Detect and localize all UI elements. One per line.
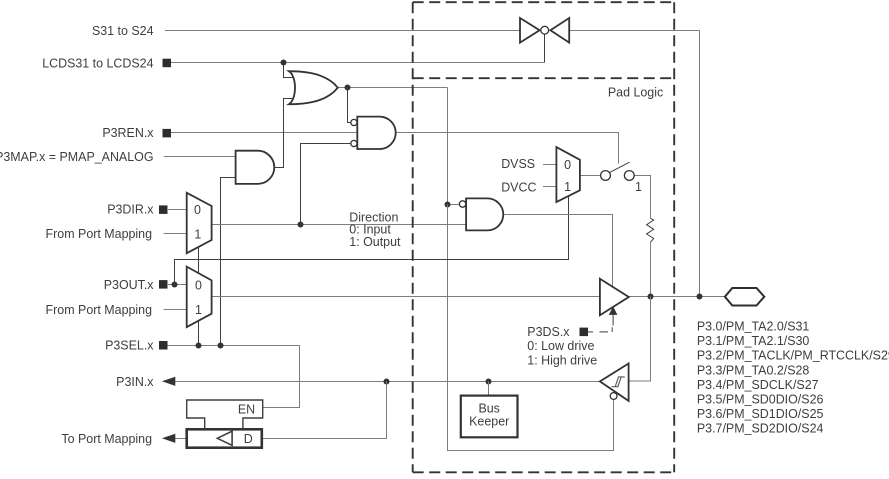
square P3OUT (159, 280, 168, 289)
wire direction to NAND bubble 2 (301, 144, 351, 225)
square P3DIR (159, 205, 168, 214)
dashed divider pad logic (413, 77, 675, 79)
square P3REN (163, 129, 172, 138)
wire P3OUT to pull mux select (175, 196, 569, 284)
switch arm (610, 162, 630, 172)
svg-text:P3DS.x: P3DS.x (527, 325, 570, 339)
wire S31 right segment (569, 30, 699, 32)
svg-text:1: 1 (195, 303, 202, 317)
svg-text:1: 1 (194, 228, 201, 242)
wire AND U3 output to buffer enable (503, 215, 612, 287)
svg-text:To Port Mapping: To Port Mapping (61, 432, 152, 446)
wire LCDS to transmission-gate control (544, 34, 546, 63)
wire bus keeper stub (488, 382, 490, 396)
drive strength arrow (609, 306, 618, 315)
P3DS dashed wire (587, 331, 593, 333)
svg-text:P3MAP.x = PMAP_ANALOG: P3MAP.x = PMAP_ANALOG (0, 150, 154, 164)
wire S31 riser to pad (699, 31, 701, 297)
node P3SEL junction 2 (218, 343, 224, 349)
svg-text:1: 1 (564, 180, 571, 194)
svg-text:1: 1 (635, 180, 642, 194)
svg-text:P3IN.x: P3IN.x (116, 375, 154, 389)
wire From Port Mapping 1 (164, 233, 187, 235)
node direction junction (298, 222, 304, 228)
wire direction line (212, 224, 467, 226)
wire switch to resistor (634, 176, 650, 219)
svg-text:From Port Mapping: From Port Mapping (46, 227, 153, 241)
bubble U3 input1 (459, 201, 465, 207)
wire P3OUT square to mux (168, 284, 187, 286)
svg-text:0: Low drive: 0: Low drive (527, 339, 594, 353)
transmission gate left triangle (520, 18, 540, 43)
mux M2 P3OUT (187, 267, 212, 328)
svg-text:0: 0 (195, 279, 202, 293)
svg-text:P3.0/PM_TA2.0/S31: P3.0/PM_TA2.0/S31 (697, 320, 810, 334)
P3DS square (580, 328, 589, 337)
node LCDS junction (281, 60, 287, 66)
and gate U3 (direction) (466, 198, 503, 230)
wire AND A2 output to OR input 2 (274, 99, 294, 168)
register EN box (187, 400, 263, 429)
svg-text:Keeper: Keeper (469, 415, 509, 429)
wire S31 left segment (165, 30, 520, 32)
wire DVSS stub (543, 164, 556, 166)
wire To Port Mapping (173, 438, 187, 440)
svg-text:1: High drive: 1: High drive (527, 354, 597, 368)
bubble U4 input1 (351, 119, 357, 125)
mux M3 pull select (556, 147, 580, 202)
wire pad line (629, 296, 725, 298)
nand gate U4 3-input (357, 117, 395, 149)
node pull resistor junction (648, 294, 654, 300)
wire pull mux output to switch (580, 175, 601, 177)
input schmitt buffer B2 (600, 364, 629, 401)
arrow P3IN (162, 377, 175, 386)
svg-text:Pad Logic: Pad Logic (608, 86, 663, 100)
schmitt symbol (612, 377, 625, 387)
svg-text:P3.6/PM_SD1DIO/S25: P3.6/PM_SD1DIO/S25 (697, 407, 824, 421)
switch circle right (624, 171, 634, 181)
or gate U1 (289, 71, 338, 104)
pad hexagon (725, 288, 764, 306)
switch circle left (601, 171, 611, 181)
wire OR output to node (338, 87, 448, 89)
svg-text:P3DIR.x: P3DIR.x (107, 203, 154, 217)
wire node down to AND U3 bubble (448, 88, 460, 205)
wire NAND output to switch control (396, 133, 619, 164)
svg-text:EN: EN (238, 402, 255, 416)
wire P3SEL to DIR mux select (198, 247, 200, 346)
resistor R1 (647, 218, 654, 242)
svg-text:P3.7/PM_SD2DIO/S24: P3.7/PM_SD2DIO/S24 (697, 422, 824, 436)
node P3OUT junction (172, 282, 178, 288)
svg-text:P3.1/PM_TA2.1/S30: P3.1/PM_TA2.1/S30 (697, 334, 810, 348)
wire OUT mux output to buffer (212, 296, 600, 298)
wire LCDS to OR input 1 (284, 63, 295, 78)
node AND U3 bubble junction (445, 202, 451, 208)
transmission gate right triangle (550, 18, 569, 43)
node P3IN to register D junction (384, 379, 390, 385)
svg-text:1: Output: 1: Output (349, 235, 401, 249)
svg-text:P3REN.x: P3REN.x (102, 126, 154, 140)
output buffer B1 (600, 279, 629, 316)
node OR output junction (345, 85, 351, 91)
wire OR output down to NAND bubble 1 (348, 88, 351, 123)
svg-text:Bus: Bus (478, 401, 499, 415)
wire P3MAP (164, 156, 236, 158)
wire LCDS horizontal (171, 62, 545, 64)
wire P3DIR square to mux (168, 209, 187, 211)
bus keeper box (461, 396, 518, 438)
wire resistor to pad line (650, 242, 652, 296)
svg-text:D: D (244, 432, 253, 446)
svg-text:0: 0 (564, 158, 571, 172)
mux M1 P3DIR (187, 193, 212, 253)
svg-text:S31 to S24: S31 to S24 (92, 24, 154, 38)
wire P3SEL line (165, 346, 300, 408)
transmission gate circle (541, 26, 549, 34)
wire register D input (262, 382, 387, 439)
wire enable net down to schmitt bubble (448, 205, 614, 451)
svg-text:P3.3/PM_TA0.2/S28: P3.3/PM_TA0.2/S28 (697, 363, 810, 377)
wire pad to schmitt input (629, 297, 651, 382)
square LCDS (163, 59, 172, 67)
register clock triangle (217, 431, 232, 445)
and gate U2 (P3MAP) (236, 151, 275, 184)
dashed box outer (413, 2, 675, 472)
svg-text:DVCC: DVCC (501, 181, 536, 195)
svg-text:P3.4/PM_SDCLK/S27: P3.4/PM_SDCLK/S27 (697, 378, 819, 392)
node pad junction (697, 294, 703, 300)
wire P3SEL to AND A2 input2 (221, 178, 236, 346)
svg-text:P3SEL.x: P3SEL.x (105, 339, 154, 353)
arrow To Port Mapping (162, 434, 175, 443)
wire DVCC stub (543, 186, 556, 188)
bubble schmitt enable (610, 393, 617, 400)
svg-text:LCDS31 to LCDS24: LCDS31 to LCDS24 (42, 56, 153, 70)
svg-text:P3.5/PM_SD0DIO/S26: P3.5/PM_SD0DIO/S26 (697, 392, 824, 406)
svg-text:DVSS: DVSS (501, 157, 535, 171)
svg-text:P3OUT.x: P3OUT.x (104, 278, 155, 292)
node P3SEL junction 1 (196, 343, 202, 349)
bubble U4 input3 (351, 140, 357, 146)
wire From Port Mapping 2 (164, 309, 187, 311)
square P3SEL (159, 341, 168, 350)
wire P3REN (171, 132, 357, 134)
wire P3IN line (175, 381, 600, 383)
node P3IN to bus keeper junction (486, 379, 492, 385)
register D box (187, 429, 262, 447)
svg-text:P3.2/PM_TACLK/PM_RTCCLK/S29: P3.2/PM_TACLK/PM_RTCCLK/S29 (697, 349, 889, 363)
svg-text:From Port Mapping: From Port Mapping (46, 303, 153, 317)
svg-text:0: 0 (194, 203, 201, 217)
